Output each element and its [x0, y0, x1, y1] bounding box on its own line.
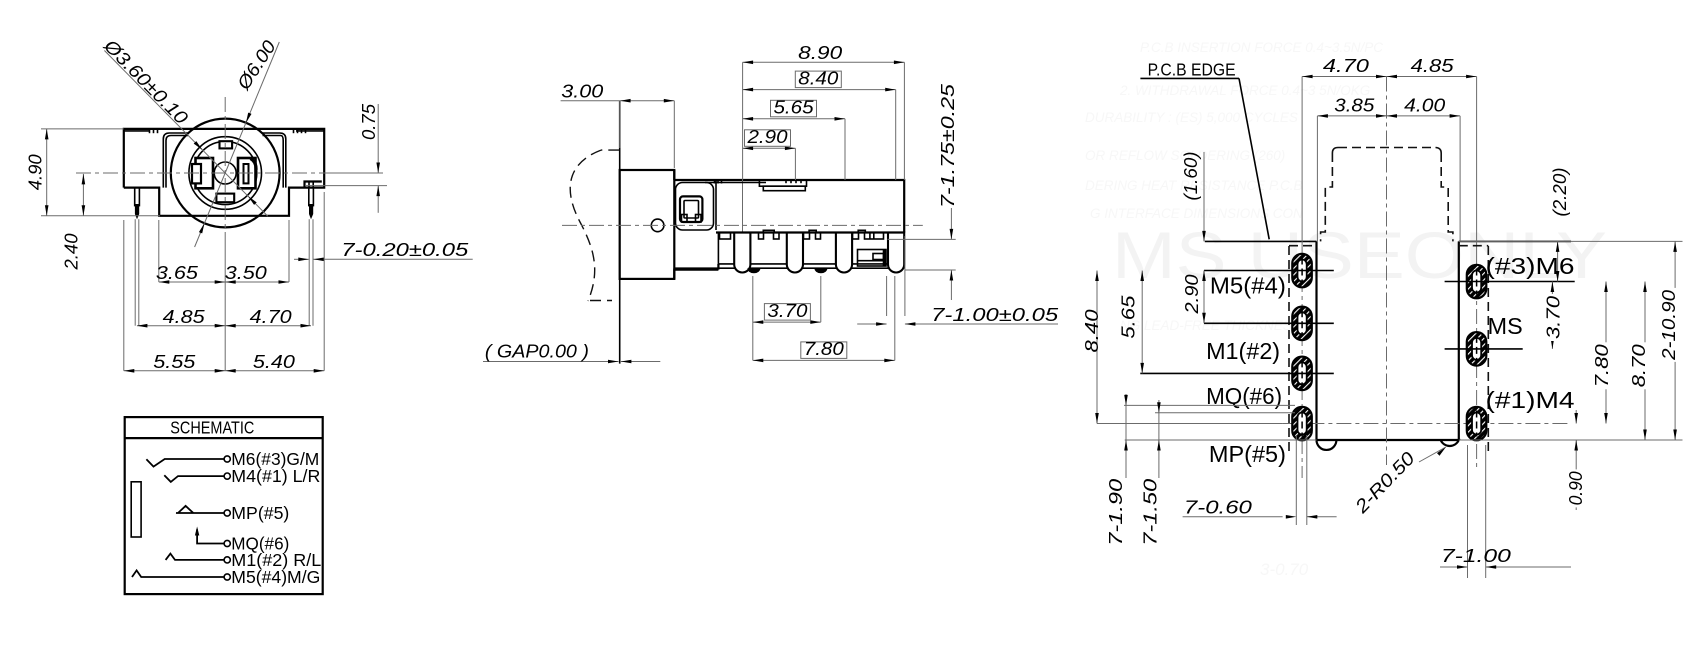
- pcb edge lines: [1205, 240, 1317, 242]
- solder pad MQ(#6): [1292, 357, 1312, 391]
- dimension 0.75: [324, 172, 383, 174]
- bottom pads row centerline: [1282, 423, 1571, 425]
- dimension 7-1.75±0.25: [888, 238, 956, 240]
- dimensions 3.85 / 4.00: [1316, 116, 1318, 241]
- diameter leader Ø3.60±0.10: [104, 51, 267, 217]
- front legs: [135, 188, 140, 206]
- left contact: [196, 158, 214, 188]
- contact MP(#5) wire: [176, 506, 224, 513]
- body internal verticals: [715, 180, 717, 230]
- solder pad M1(#2): [1292, 307, 1312, 341]
- leg extension lines: [134, 219, 136, 326]
- dimensions 3.65 / 3.50: [158, 220, 160, 282]
- barrel: [620, 170, 675, 279]
- dimension 2.40: [82, 174, 84, 216]
- dashed pad slot outlines: [1289, 246, 1488, 455]
- barrel circles: [171, 119, 280, 228]
- svg-text:2. WITHDRAWAL FORCE 0.4~3 5N: 2. WITHDRAWAL FORCE 0.4~3 5N/OKG: [1119, 83, 1370, 98]
- panel break dashed curve: [570, 150, 619, 301]
- jack plug symbol: [131, 482, 141, 537]
- svg-text:8.40: 8.40: [798, 67, 839, 88]
- svg-text:3.65: 3.65: [156, 262, 199, 283]
- solder pad M5(#4): [1292, 254, 1312, 287]
- pin extension lines: [752, 276, 754, 360]
- boxed dimension 2.90: [794, 148, 796, 180]
- dimension 3.00: [561, 100, 675, 102]
- svg-text:M5(#4): M5(#4): [1210, 273, 1286, 299]
- svg-text:3.70: 3.70: [767, 300, 808, 321]
- dimension 8.90: [742, 62, 744, 180]
- svg-text:5.65: 5.65: [1117, 295, 1138, 339]
- right contact: [238, 158, 256, 188]
- svg-text:5.55: 5.55: [153, 351, 196, 372]
- svg-text:NG LEAD-FREE THICKNESS: NG LEAD-FREE THICKNESS: [1120, 318, 1301, 333]
- small tabs below pin line: [720, 233, 731, 240]
- svg-text:M1(#2): M1(#2): [1206, 338, 1280, 364]
- pin 1 side view: [734, 233, 750, 273]
- middle centerline: [562, 224, 923, 226]
- hidden pin bottoms: [747, 268, 760, 273]
- solder pad MS: [1467, 332, 1487, 366]
- svg-text:MP(#5): MP(#5): [1209, 441, 1286, 467]
- dimension 3.70: [1551, 282, 1553, 349]
- contact M6(#3) wire: [146, 459, 224, 467]
- dimension 7-0.60: [1295, 435, 1297, 525]
- boxed dimension 3.70: [753, 321, 821, 323]
- faint watermark text: [1085, 40, 1383, 579]
- boxed dimension 5.65: [844, 119, 846, 180]
- svg-text:MP(#5): MP(#5): [231, 503, 289, 523]
- tick marks on body top: [149, 129, 151, 133]
- dimension 2-10.90: [1459, 240, 1683, 242]
- svg-text:7-1.90: 7-1.90: [1105, 478, 1126, 546]
- solder pad M4(#1): [1467, 407, 1487, 441]
- svg-text:3.50: 3.50: [225, 262, 268, 283]
- svg-text:0.90: 0.90: [1565, 471, 1586, 506]
- dimensions 4.85 / 4.70: [137, 325, 311, 327]
- notches on pin line: [763, 230, 774, 232]
- svg-text:2.90: 2.90: [746, 126, 788, 147]
- svg-text:4.85: 4.85: [163, 306, 206, 327]
- barrel hole: [651, 219, 664, 232]
- svg-text:4.85: 4.85: [1411, 55, 1455, 76]
- svg-text:2.90: 2.90: [1181, 274, 1202, 315]
- svg-text:P.C.B INSERTION FORCE 0.4~3.5: P.C.B INSERTION FORCE 0.4~3.5N/PC: [1140, 40, 1383, 55]
- boxed dimension 8.40: [895, 90, 897, 180]
- pin 3 side view: [836, 233, 852, 273]
- svg-text:3.85: 3.85: [1334, 95, 1375, 116]
- svg-text:7-1.00: 7-1.00: [1441, 545, 1512, 566]
- svg-text:5.40: 5.40: [253, 351, 296, 372]
- dimension 0.90: [1575, 410, 1577, 424]
- svg-text:(2.20): (2.20): [1549, 168, 1570, 217]
- contact M1(#2) wire: [166, 554, 224, 560]
- svg-text:4.70: 4.70: [1323, 55, 1370, 76]
- front view: connector body: [124, 129, 324, 216]
- svg-text:4.00: 4.00: [1404, 95, 1446, 116]
- svg-text:(1.60): (1.60): [1180, 152, 1201, 201]
- svg-text:(#1)M4: (#1)M4: [1486, 387, 1575, 413]
- svg-text:8.90: 8.90: [798, 42, 843, 63]
- schematic box: [125, 417, 323, 594]
- dimension 7.80: [1605, 282, 1607, 424]
- dimension 8.40: [1096, 271, 1098, 424]
- dimension 2.90: [1203, 271, 1205, 324]
- svg-text:7.80: 7.80: [1591, 343, 1612, 387]
- dimension 8.70: [1459, 439, 1683, 441]
- middle view : side view: [619, 101, 621, 364]
- pin attach line: [716, 231, 904, 233]
- pad column axis lines: [1301, 77, 1303, 251]
- svg-text:8.40: 8.40: [1081, 309, 1102, 353]
- dimensions 4.70 / 4.85: [1302, 76, 1477, 78]
- dimension (1.60): [1203, 152, 1205, 241]
- svg-text:( GAP0.00 ): ( GAP0.00 ): [485, 341, 589, 362]
- solder pad M6(#3): [1467, 265, 1487, 299]
- svg-text:SCHEMATIC: SCHEMATIC: [170, 418, 254, 438]
- top notch: [220, 141, 233, 148]
- middle body outline: [674, 170, 904, 279]
- leader 7-1.00±0.05: [857, 323, 886, 325]
- pin 2 side view: [787, 233, 803, 273]
- dimension 5.65: [1141, 271, 1143, 374]
- leader 7-0.20±0.05: [308, 219, 310, 292]
- retention clip: [676, 183, 714, 231]
- contact MQ(#6) wire with switch arrow: [197, 529, 224, 543]
- dashed connector outline: [1321, 148, 1453, 242]
- svg-text:M5(#4)M/G: M5(#4)M/G: [231, 567, 320, 587]
- svg-text:MS: MS: [1488, 313, 1523, 339]
- dimension (2.20): [1557, 241, 1559, 281]
- boxed dimension 7.80: [753, 359, 895, 361]
- svg-text:2.40: 2.40: [61, 233, 82, 271]
- body outline pcb view: [1317, 241, 1459, 440]
- pin 4 side view: [888, 233, 904, 273]
- centerlines front view: [76, 172, 383, 174]
- svg-text:7-0.20±0.05: 7-0.20±0.05: [341, 239, 469, 260]
- svg-text:0.75: 0.75: [358, 103, 379, 140]
- center line: [1386, 77, 1388, 466]
- leader 2-R0.50: [1419, 447, 1446, 462]
- inner shell walls: [163, 133, 285, 188]
- dimension 4.90: [41, 128, 124, 130]
- top edge details: [705, 182, 766, 184]
- svg-text:7-1.50: 7-1.50: [1139, 478, 1160, 546]
- dimensions 7-1.90 / 7-1.50: [1124, 404, 1295, 406]
- pad leader lines: [1204, 270, 1334, 272]
- dimensions 5.55 / 5.40: [123, 220, 125, 371]
- bottom contact rect: [216, 194, 234, 203]
- svg-text:M4(#1) L/R: M4(#1) L/R: [231, 466, 320, 486]
- diameter leader Ø6.00: [195, 42, 280, 247]
- solder pad MP(#5): [1292, 407, 1312, 441]
- svg-text:3-0.70: 3-0.70: [1260, 560, 1309, 579]
- svg-text:DURABILITY : (ES) 5,000 CYCLES: DURABILITY : (ES) 5,000 CYCLES: [1085, 110, 1298, 125]
- svg-text:7-1.75±0.25: 7-1.75±0.25: [937, 83, 958, 208]
- svg-text:7-0.60: 7-0.60: [1184, 497, 1253, 518]
- svg-text:P.C.B EDGE: P.C.B EDGE: [1148, 60, 1236, 80]
- svg-text:3.00: 3.00: [561, 80, 604, 101]
- svg-text:3.70: 3.70: [1543, 295, 1564, 339]
- clip detail bottom right: [858, 250, 887, 267]
- svg-text:2-10.90: 2-10.90: [1658, 289, 1679, 361]
- contact M5(#4) wire: [132, 570, 224, 577]
- svg-text:7-1.00±0.05: 7-1.00±0.05: [931, 304, 1059, 325]
- leader (GAP0.00): [483, 361, 619, 363]
- svg-text:8.70: 8.70: [1628, 343, 1649, 387]
- svg-text:4.70: 4.70: [250, 306, 293, 327]
- svg-text:5.65: 5.65: [774, 97, 815, 118]
- dimension 7-1.00: [1467, 445, 1469, 578]
- contact M4(#1) wire: [164, 475, 224, 482]
- svg-text:(#3)M6: (#3)M6: [1486, 253, 1575, 279]
- svg-text:7.80: 7.80: [804, 338, 845, 359]
- svg-text:4.90: 4.90: [24, 154, 45, 191]
